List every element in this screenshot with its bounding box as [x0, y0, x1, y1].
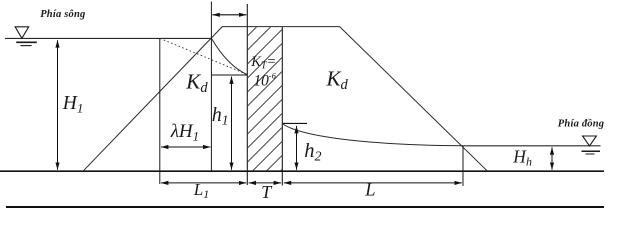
- dimension H1 arrow: [57, 40, 59, 170]
- downstream seepage tick line: [282, 122, 307, 124]
- svg-text:Phía sông: Phía sông: [40, 9, 85, 20]
- seepage curve upstream (depression curve): [212, 38, 248, 74]
- dotted seepage approximation line: [160, 38, 247, 74]
- wall right face line: [281, 27, 283, 186]
- dimension L: [284, 182, 462, 184]
- dimension Hh arrow: [551, 147, 553, 169]
- upstream water level symbol: [15, 27, 37, 46]
- upstream slope of dam: [83, 27, 222, 172]
- svg-text:Kd: Kd: [185, 69, 208, 96]
- svg-text:L: L: [364, 180, 375, 200]
- h1 level tick line: [211, 74, 247, 76]
- bottom boundary line: [6, 206, 604, 208]
- svg-text:10-6: 10-6: [254, 70, 277, 89]
- hatch of cutoff wall: [233, 0, 297, 240]
- upstream water level line: [5, 37, 212, 39]
- dimension h1 arrow: [231, 77, 233, 170]
- downstream water level line: [463, 145, 601, 147]
- svg-text:Hh: Hh: [512, 146, 532, 168]
- extension line V4 right end of L: [462, 146, 464, 186]
- svg-text:KT=: KT=: [250, 54, 276, 72]
- svg-text:Phía đồng: Phía đồng: [558, 118, 604, 129]
- dimension L1: [161, 182, 246, 184]
- dam crest line: [222, 26, 340, 28]
- wall left face line: [246, 4, 248, 185]
- svg-text:Kd: Kd: [326, 67, 349, 94]
- downstream slope of dam: [340, 27, 488, 172]
- top dimension arrow (wall offset): [212, 14, 246, 16]
- dimension lambda-H1 arrow: [161, 146, 210, 148]
- extension line V1 at seepage entry: [210, 2, 212, 172]
- svg-text:H1: H1: [62, 93, 84, 116]
- seepage curve downstream: [282, 124, 463, 146]
- ground base line: [0, 170, 604, 172]
- svg-text:λH1: λH1: [170, 121, 199, 144]
- svg-text:T: T: [261, 182, 273, 202]
- svg-text:h1: h1: [212, 104, 229, 128]
- dimension h2 arrow: [296, 126, 298, 170]
- downstream water level symbol: [582, 136, 601, 154]
- extension line V3 (left of lambda-H1): [159, 38, 161, 184]
- dimension T: [249, 182, 281, 184]
- svg-text:h2: h2: [304, 140, 321, 165]
